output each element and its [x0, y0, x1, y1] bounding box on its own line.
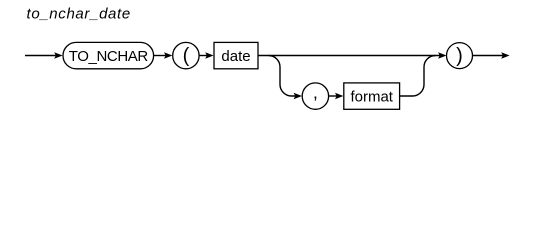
wire open-paren to date: [199, 55, 207, 57]
end arrowhead: [501, 52, 509, 58]
branch split wire down: [269, 56, 296, 97]
branch join wire up: [400, 56, 436, 97]
arrowhead into format: [335, 93, 343, 99]
arrowhead into close-paren: [438, 52, 446, 58]
end wire: [473, 55, 504, 57]
svg-text:): ): [456, 45, 463, 67]
wire comma to format: [329, 95, 337, 97]
wire oval to open-paren: [154, 55, 166, 57]
main wire date to close-paren: [258, 55, 440, 57]
arrowhead into comma: [294, 93, 302, 99]
terminal TO_NCHAR: [63, 42, 154, 68]
terminal open parenthesis: [173, 42, 199, 68]
nonterminal format: [344, 83, 400, 109]
start arrowhead: [54, 52, 62, 58]
svg-text:format: format: [350, 88, 393, 105]
svg-text:,: ,: [313, 82, 318, 102]
arrowhead into open-paren: [164, 52, 172, 58]
svg-text:TO_NCHAR: TO_NCHAR: [69, 48, 149, 65]
nonterminal date: [214, 42, 258, 68]
terminal close parenthesis: [447, 43, 473, 69]
terminal comma: [302, 83, 328, 109]
svg-text:(: (: [183, 45, 190, 67]
arrowhead into date: [205, 52, 213, 58]
svg-text:date: date: [221, 48, 250, 65]
start wire: [25, 55, 56, 57]
svg-text:to_nchar_date: to_nchar_date: [27, 6, 131, 23]
